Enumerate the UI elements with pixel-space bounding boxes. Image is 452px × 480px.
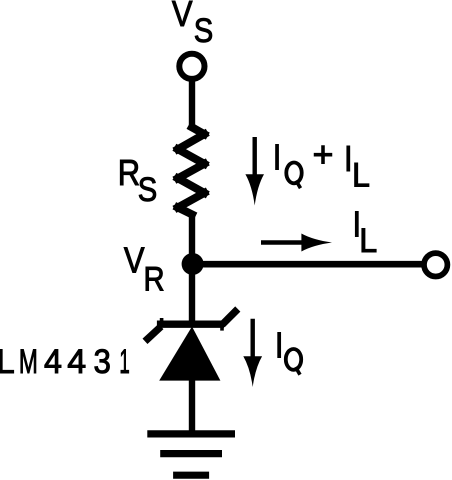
svg-text:I: I [275, 326, 284, 366]
svg-text:+: + [313, 134, 334, 175]
svg-text:V: V [124, 242, 145, 282]
svg-text:1: 1 [119, 342, 129, 380]
svg-text:R: R [144, 260, 165, 299]
svg-text:L: L [359, 222, 377, 260]
svg-text:L: L [352, 157, 370, 195]
svg-text:M: M [19, 344, 38, 382]
svg-text:V: V [172, 0, 193, 35]
svg-text:4: 4 [67, 343, 86, 381]
svg-text:4: 4 [44, 343, 62, 381]
svg-text:R: R [118, 154, 140, 194]
svg-text:3: 3 [94, 342, 111, 381]
svg-text:I: I [273, 138, 282, 178]
svg-text:S: S [138, 170, 157, 209]
svg-text:L: L [0, 344, 15, 382]
svg-text:S: S [194, 11, 213, 50]
